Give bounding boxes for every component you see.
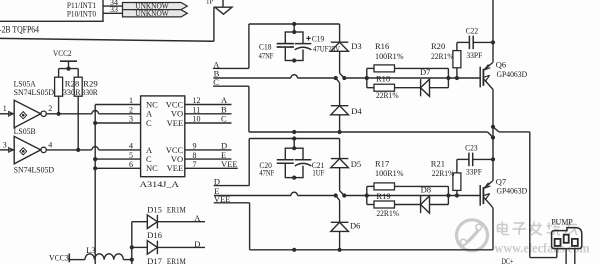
svg-text:33: 33: [110, 5, 118, 14]
svg-text:SN74LS05D: SN74LS05D: [14, 87, 55, 97]
svg-text:C19: C19: [312, 33, 325, 43]
svg-text:R19: R19: [376, 191, 390, 201]
svg-text:LS05B: LS05B: [14, 126, 36, 136]
svg-text:D5: D5: [351, 159, 361, 169]
svg-text:33PF: 33PF: [466, 167, 482, 177]
svg-text:10: 10: [193, 115, 201, 124]
svg-text:C: C: [146, 118, 152, 128]
svg-text:47NF: 47NF: [259, 50, 274, 60]
svg-text:4: 4: [48, 140, 52, 149]
svg-text:D17: D17: [147, 256, 162, 264]
svg-text:D8: D8: [421, 184, 431, 194]
svg-text:ER1M: ER1M: [167, 204, 186, 214]
svg-text:SN74LS05D: SN74LS05D: [14, 164, 55, 174]
svg-text:5: 5: [129, 151, 133, 160]
svg-text:6: 6: [129, 160, 133, 169]
svg-text:9: 9: [193, 142, 197, 151]
svg-text:VCC3: VCC3: [49, 252, 69, 262]
svg-text:L3: L3: [86, 245, 95, 255]
svg-text:33PF: 33PF: [466, 50, 482, 60]
svg-text:VEE: VEE: [167, 118, 184, 128]
svg-text:-2B TQFP64: -2B TQFP64: [0, 25, 39, 35]
svg-text:3: 3: [3, 140, 7, 149]
svg-text:D15: D15: [147, 204, 162, 214]
svg-text:1P: 1P: [206, 0, 214, 6]
svg-text:D3: D3: [351, 41, 361, 51]
svg-text:22R1%: 22R1%: [431, 51, 454, 61]
svg-text:D7: D7: [420, 67, 430, 77]
svg-text:22R1%: 22R1%: [432, 168, 455, 178]
svg-text:1: 1: [3, 104, 7, 113]
svg-text:330R: 330R: [63, 87, 81, 97]
svg-text:D16: D16: [147, 230, 162, 240]
svg-text:DC+: DC+: [502, 256, 514, 264]
svg-text:2: 2: [48, 104, 52, 113]
svg-text:ER1M: ER1M: [167, 256, 186, 264]
svg-text:11: 11: [193, 106, 201, 115]
svg-text:C23: C23: [465, 143, 478, 153]
svg-text:330R: 330R: [82, 87, 98, 97]
svg-text:100R1%: 100R1%: [375, 168, 404, 178]
svg-text:VCC2: VCC2: [53, 48, 72, 58]
svg-text:NC: NC: [146, 163, 158, 173]
svg-text:R18: R18: [376, 74, 390, 84]
svg-text:D4: D4: [351, 106, 362, 116]
svg-text:1: 1: [129, 96, 133, 105]
svg-text:22R1%: 22R1%: [376, 90, 399, 100]
svg-text:R20: R20: [431, 41, 445, 51]
svg-text:7: 7: [193, 160, 197, 169]
svg-text:GP4063D: GP4063D: [497, 69, 528, 79]
svg-text:P10/INT0: P10/INT0: [67, 9, 96, 18]
svg-text:UNKNOW: UNKNOW: [135, 9, 169, 18]
svg-text:100R1%: 100R1%: [375, 51, 404, 61]
svg-text:PUMP: PUMP: [551, 217, 573, 226]
svg-text:D6: D6: [350, 221, 360, 231]
svg-text:C22: C22: [466, 26, 479, 36]
svg-text:12: 12: [193, 96, 201, 105]
svg-text:A: A: [194, 213, 201, 223]
svg-text:VEE: VEE: [221, 159, 238, 169]
svg-text:C: C: [221, 114, 227, 124]
svg-text:22R1%: 22R1%: [376, 208, 399, 218]
svg-text:VEE: VEE: [167, 163, 184, 173]
svg-text:3: 3: [129, 115, 133, 124]
svg-text:GP4063D: GP4063D: [497, 186, 528, 196]
svg-text:R16: R16: [375, 41, 389, 51]
svg-text:8: 8: [193, 151, 197, 160]
svg-text:2: 2: [129, 106, 133, 115]
svg-text:D: D: [194, 239, 200, 249]
svg-text:47NF: 47NF: [259, 167, 274, 177]
svg-text:4: 4: [129, 142, 133, 151]
svg-text:A314J_A: A314J_A: [140, 179, 180, 189]
svg-text:1UF: 1UF: [312, 167, 324, 177]
